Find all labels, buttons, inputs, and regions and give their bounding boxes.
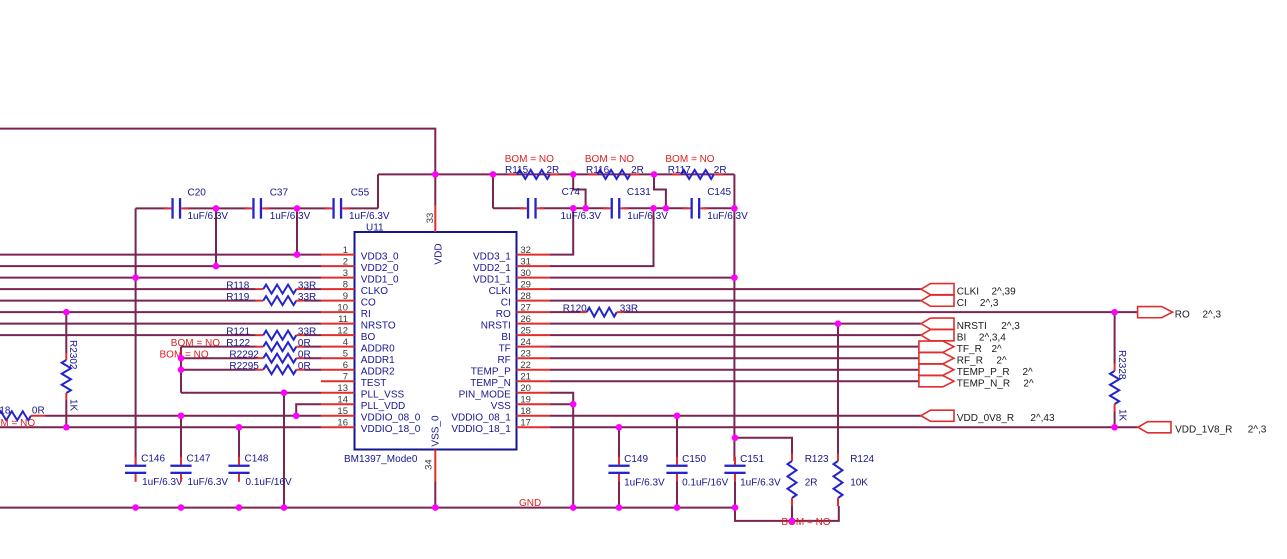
value BM1397_Mode0 [344, 454, 418, 465]
svg-text:TEMP_P_R: TEMP_P_R [957, 367, 1010, 378]
svg-text:12: 12 [337, 325, 348, 336]
wire C147 tap [180, 416, 182, 466]
wire RI row [0, 311, 321, 313]
wire VDD2_0 row [0, 265, 321, 267]
wire CLKO row b [304, 288, 321, 290]
svg-text:C20: C20 [188, 187, 207, 198]
junction [281, 504, 288, 511]
wire ADDR2 row a [181, 369, 256, 371]
junction [213, 263, 220, 270]
svg-text:0R: 0R [298, 349, 311, 360]
wire cap rail seg2 [184, 207, 249, 209]
svg-text:PIN_MODE: PIN_MODE [459, 390, 512, 401]
svg-text:11: 11 [338, 314, 348, 325]
wire PLL_VSS to GND vertical [283, 393, 285, 508]
resistor R2295 [229, 361, 310, 374]
svg-text:ADDR0: ADDR0 [361, 343, 395, 354]
svg-text:2R: 2R [547, 165, 560, 176]
resistor R120 [563, 303, 638, 316]
svg-text:RO: RO [496, 309, 511, 320]
capacitor C55 [325, 187, 390, 222]
port NRSTI [921, 318, 1020, 332]
junction [63, 424, 70, 431]
svg-text:1uF/6.3V: 1uF/6.3V [627, 211, 668, 222]
wire cap rail seg4 [345, 207, 378, 209]
svg-text:NRSTI: NRSTI [481, 320, 511, 331]
wire R2302 top seg [65, 312, 67, 353]
wire bypass rail seg1 [493, 207, 524, 209]
capacitor C151 [724, 454, 781, 489]
junction [294, 251, 301, 258]
svg-text:TEMP_N_R: TEMP_N_R [957, 378, 1010, 389]
wire R124 feed [837, 324, 839, 454]
wire ADDR bus vertical [180, 347, 182, 393]
svg-text:R123: R123 [805, 454, 829, 465]
svg-text:VSS_0: VSS_0 [431, 415, 442, 447]
svg-text:18: 18 [520, 406, 531, 417]
svg-text:TF: TF [499, 343, 511, 354]
svg-text:BM1397_Mode0: BM1397_Mode0 [344, 454, 418, 465]
junction [236, 424, 243, 431]
svg-text:0.1uF/16V: 0.1uF/16V [246, 477, 292, 488]
wire pin33 feed [434, 174, 436, 205]
wire ADDR2 row b [304, 369, 321, 371]
svg-text:RF: RF [497, 355, 510, 366]
svg-text:NRSTO: NRSTO [361, 320, 396, 331]
wire CLKO row a [0, 288, 256, 290]
junction [570, 504, 577, 511]
svg-text:28: 28 [520, 291, 531, 302]
pin 3 VDD1_0 [321, 268, 399, 286]
port CI [921, 295, 999, 309]
wire ADDR1 row a [181, 357, 256, 359]
junction [178, 412, 185, 419]
svg-text:31: 31 [520, 256, 531, 267]
junction [616, 424, 623, 431]
wire VDD2_1 pin31 link [550, 208, 654, 266]
capacitor C37 [245, 187, 311, 222]
svg-text:R2295: R2295 [229, 361, 259, 372]
svg-text:VDDIO_08_0: VDDIO_08_0 [361, 413, 421, 424]
svg-text:CLKI: CLKI [957, 286, 979, 297]
pin 13 PLL_VSS [321, 383, 404, 401]
port VDD_0V8_R [921, 410, 1055, 424]
wire VDD to C55 [377, 174, 379, 208]
junction [731, 274, 738, 281]
svg-text:21: 21 [520, 371, 531, 382]
pin 12 BO [321, 325, 375, 343]
svg-text:CO: CO [361, 297, 376, 308]
svg-text:1K: 1K [68, 399, 79, 412]
svg-text:17: 17 [520, 417, 531, 428]
resistor R123 [788, 454, 830, 507]
pin 4 ADDR0 [321, 337, 395, 355]
junction [213, 205, 220, 212]
junction [674, 504, 681, 511]
resistor R2292 [160, 349, 311, 362]
svg-text:15: 15 [337, 406, 348, 417]
svg-text:CI: CI [957, 298, 967, 309]
wire bypass rail seg3 [624, 207, 688, 209]
pin 26 NRSTI [481, 314, 550, 332]
wire BO row b [304, 334, 321, 336]
capacitor C131 [603, 187, 668, 222]
wire VDD top rail [0, 129, 435, 175]
wire R117 to VDD1 vertical [733, 174, 735, 461]
svg-text:VDD: VDD [434, 243, 445, 264]
svg-text:PLL_VSS: PLL_VSS [361, 390, 405, 401]
wire C20 junction drop [215, 208, 217, 266]
svg-text:R118: R118 [226, 280, 250, 291]
pin 5 ADDR1 [321, 348, 395, 366]
pin 18 VDDIO_08_1 [451, 406, 550, 424]
pin 10 RI [321, 302, 371, 320]
junction [432, 171, 439, 178]
wire cap rail seg1 [136, 207, 169, 209]
svg-text:1uF/6.3V: 1uF/6.3V [188, 211, 229, 222]
wire C148 tap [238, 427, 240, 465]
resistor R2302 [62, 340, 79, 412]
wire VDD1_1 pin30 link [550, 277, 734, 279]
svg-text:13: 13 [337, 383, 348, 394]
svg-text:BOM = NO: BOM = NO [505, 154, 554, 165]
svg-text:C131: C131 [627, 187, 651, 198]
junction [732, 435, 739, 442]
junction [281, 389, 288, 396]
svg-text:VDDIO_18_1: VDDIO_18_1 [451, 424, 511, 435]
net label GND [519, 498, 541, 509]
svg-text:VDD3_0: VDD3_0 [361, 251, 399, 262]
svg-text:2R: 2R [631, 165, 644, 176]
pin 19 VSS [491, 394, 550, 412]
svg-text:C151: C151 [740, 454, 764, 465]
pin 29 CLKI [489, 279, 550, 297]
svg-text:CI: CI [501, 297, 511, 308]
svg-text:VDD2_1: VDD2_1 [473, 263, 511, 274]
wire R123 bottom lead [791, 506, 793, 521]
pin 28 CI [501, 291, 550, 309]
svg-text:VDD_0V8_R: VDD_0V8_R [957, 413, 1014, 424]
capacitor C74 [519, 187, 601, 222]
resistor R118 [226, 280, 316, 293]
svg-text:2^: 2^ [1023, 378, 1034, 389]
svg-text:22: 22 [520, 360, 531, 371]
svg-text:R2292: R2292 [229, 349, 259, 360]
capacitor C149 [608, 454, 665, 489]
junction [663, 205, 670, 212]
junction [293, 412, 300, 419]
svg-text:14: 14 [337, 394, 348, 405]
svg-text:2^: 2^ [992, 344, 1003, 355]
junction [674, 412, 681, 419]
svg-text:0R: 0R [298, 361, 311, 372]
svg-text:C74: C74 [562, 187, 581, 198]
wire R2328 bottom seg [1114, 412, 1116, 428]
wire PIN_MODE link [550, 393, 573, 405]
svg-text:R119: R119 [226, 292, 250, 303]
svg-text:R124: R124 [850, 454, 874, 465]
svg-text:R2302: R2302 [67, 340, 78, 370]
svg-text:1uF/6.3V: 1uF/6.3V [707, 211, 748, 222]
svg-text:NRSTI: NRSTI [957, 321, 987, 332]
junction [63, 309, 70, 316]
wire CO row b [304, 300, 321, 302]
svg-text:BOM = NO: BOM = NO [665, 154, 714, 165]
wire C149 gnd lead [618, 481, 620, 508]
svg-text:2^,3: 2^,3 [1248, 424, 1267, 435]
junction [732, 504, 739, 511]
svg-text:R2328: R2328 [1116, 350, 1127, 380]
wire GND rail [0, 507, 735, 509]
resistor R116 [585, 154, 644, 179]
pin 11 NRSTO [321, 314, 396, 332]
port RO [1138, 307, 1222, 321]
junction [132, 504, 139, 511]
junction [490, 171, 497, 178]
junction [616, 504, 623, 511]
pin 33 VDD [425, 205, 445, 265]
svg-text:R2318: R2318 [0, 405, 11, 416]
svg-text:TEMP_P: TEMP_P [471, 367, 511, 378]
port TF_R [919, 341, 1002, 355]
svg-text:16: 16 [337, 417, 348, 428]
chip U11 body [355, 232, 517, 450]
svg-text:VDDIO_08_1: VDDIO_08_1 [451, 413, 511, 424]
wire R123 feed [735, 438, 792, 454]
wire VDD horizontal [378, 173, 734, 175]
wire pin34 to GND [434, 482, 436, 508]
svg-text:2^,43: 2^,43 [1030, 413, 1055, 424]
wire RO net a [550, 311, 580, 313]
wire VDD1_0 row [0, 277, 321, 279]
wire TEMP_N net [550, 380, 919, 382]
resistor R117 [665, 154, 726, 179]
svg-text:1uF/6.3V: 1uF/6.3V [142, 477, 183, 488]
svg-text:C148: C148 [245, 453, 269, 464]
wire VDD3_0 row [0, 254, 321, 256]
junction [1111, 309, 1118, 316]
pin 20 PIN_MODE [459, 383, 550, 401]
svg-text:GND: GND [519, 498, 541, 509]
svg-text:TEST: TEST [361, 378, 387, 389]
svg-text:0R: 0R [298, 338, 311, 349]
wire R2302 bottom seg [65, 400, 67, 427]
wire cap rail seg3 [265, 207, 329, 209]
svg-text:5: 5 [343, 348, 348, 359]
junction [178, 366, 185, 373]
wire RO net b [624, 311, 1138, 313]
capacitor C145 [683, 187, 748, 222]
wire TEMP_P net [550, 369, 919, 371]
svg-text:6: 6 [343, 360, 348, 371]
wire NRSTI net [550, 323, 921, 325]
svg-text:0.1uF/16V: 0.1uF/16V [682, 477, 728, 488]
svg-text:24: 24 [520, 337, 531, 348]
svg-text:BOM = NO: BOM = NO [585, 154, 634, 165]
svg-text:VSS: VSS [491, 401, 511, 412]
svg-text:1uF/6.3V: 1uF/6.3V [270, 211, 311, 222]
svg-text:20: 20 [520, 383, 531, 394]
junction [178, 355, 185, 362]
svg-text:33R: 33R [298, 292, 316, 303]
pin 34 VSS_0 [424, 415, 442, 482]
wire ADDR0 row b [304, 346, 321, 348]
svg-text:RI: RI [361, 309, 371, 320]
svg-text:2^: 2^ [1023, 367, 1034, 378]
wire bypass rail drop [492, 174, 494, 208]
pin 31 VDD2_1 [473, 256, 550, 274]
svg-text:VDD3_1: VDD3_1 [473, 251, 511, 262]
svg-text:19: 19 [520, 394, 531, 405]
svg-text:R121: R121 [226, 326, 250, 337]
svg-text:9: 9 [343, 291, 348, 302]
wire VDDIO_08 row [45, 415, 321, 417]
wire NRSTO row [0, 323, 321, 325]
svg-text:2^,3: 2^,3 [1001, 321, 1020, 332]
svg-text:33: 33 [425, 213, 436, 224]
resistor R2318 [0, 405, 45, 428]
pin 27 RO [496, 302, 550, 320]
designator U11 [366, 222, 384, 233]
wire C74 feed jog [573, 174, 585, 208]
wire C150 gnd lead [676, 481, 678, 508]
pin 25 BI [501, 325, 550, 343]
svg-text:RO: RO [1175, 309, 1190, 320]
pin 2 VDD2_0 [321, 256, 399, 274]
svg-text:33R: 33R [298, 280, 316, 291]
pin 9 CO [321, 291, 376, 309]
svg-text:0R: 0R [32, 405, 45, 416]
svg-text:8: 8 [343, 279, 348, 290]
svg-text:2^,3,4: 2^,3,4 [979, 332, 1006, 343]
svg-text:BI: BI [957, 332, 966, 343]
pin 7 TEST [321, 371, 386, 389]
svg-text:2: 2 [343, 256, 348, 267]
text BOM = NO bottom [781, 517, 830, 528]
svg-text:23: 23 [520, 348, 531, 359]
wire ADDR1 row b [304, 357, 321, 359]
svg-text:2R: 2R [714, 165, 727, 176]
svg-text:RF_R: RF_R [957, 355, 983, 366]
capacitor C150 [666, 454, 728, 489]
junction [731, 205, 738, 212]
junction [835, 320, 842, 327]
pin 23 RF [497, 348, 550, 366]
svg-text:CLKI: CLKI [489, 286, 511, 297]
pin 15 VDDIO_08_0 [321, 406, 421, 424]
wire bypass rail seg2 [540, 207, 608, 209]
wire VDDIO_18 row [0, 426, 321, 428]
wire VSS to GND [572, 404, 574, 507]
svg-text:R120: R120 [563, 303, 587, 314]
svg-text:C146: C146 [141, 453, 165, 464]
svg-text:3: 3 [343, 268, 348, 279]
pin 30 VDD1_1 [473, 268, 550, 286]
svg-text:BO: BO [361, 332, 376, 343]
svg-text:1K: 1K [1117, 409, 1128, 422]
svg-text:TF_R: TF_R [957, 344, 982, 355]
wire CI net [550, 300, 921, 302]
svg-text:ADDR2: ADDR2 [361, 367, 395, 378]
junction [432, 504, 439, 511]
wire BO row a [0, 334, 256, 336]
capacitor C20 [164, 187, 229, 222]
wire VDD3_1 pin32 link [550, 208, 573, 254]
wire C150 tap [676, 416, 678, 458]
svg-text:VDDIO_18_0: VDDIO_18_0 [361, 424, 421, 435]
pin 1 VDD3_0 [321, 245, 399, 263]
wire RF net [550, 357, 919, 359]
svg-text:29: 29 [520, 279, 531, 290]
wire C37 junction drop [296, 208, 298, 254]
wire C131 feed jog [654, 174, 666, 208]
resistor R122 [171, 338, 311, 351]
pin 22 TEMP_P [471, 360, 550, 378]
svg-text:7: 7 [343, 371, 348, 382]
resistor R121 [226, 326, 316, 339]
wire BI net [550, 334, 921, 336]
junction [570, 205, 577, 212]
resistor R124 [834, 454, 875, 507]
wire C149 tap [618, 427, 620, 457]
svg-text:25: 25 [520, 325, 531, 336]
svg-text:33R: 33R [620, 303, 638, 314]
wire bypass rail seg4 [704, 207, 735, 209]
svg-text:2^: 2^ [996, 355, 1007, 366]
junction [294, 205, 301, 212]
port TEMP_N_R [919, 376, 1034, 390]
pin 6 ADDR2 [321, 360, 395, 378]
svg-text:ADDR1: ADDR1 [361, 355, 395, 366]
svg-text:BOM = NO: BOM = NO [0, 418, 35, 429]
wire VDDIO_08 right [550, 415, 921, 417]
svg-text:U11: U11 [366, 222, 384, 233]
svg-text:1uF/6.3V: 1uF/6.3V [188, 477, 229, 488]
pin 24 TF [499, 337, 550, 355]
svg-text:C149: C149 [624, 454, 648, 465]
port BI [921, 330, 1006, 344]
junction [650, 205, 657, 212]
pin 8 CLKO [321, 279, 388, 297]
svg-text:1uF/6.3V: 1uF/6.3V [740, 477, 781, 488]
svg-text:C147: C147 [187, 453, 211, 464]
svg-text:1: 1 [343, 245, 348, 256]
svg-text:33R: 33R [298, 326, 316, 337]
svg-text:30: 30 [520, 268, 531, 279]
svg-text:BI: BI [501, 332, 510, 343]
resistor R119 [226, 292, 316, 305]
svg-text:BOM = NO: BOM = NO [781, 517, 830, 528]
junction [570, 171, 577, 178]
pin 14 PLL_VDD [321, 394, 405, 412]
resistor R2328 [1110, 350, 1128, 422]
svg-text:R122: R122 [226, 338, 250, 349]
junction [132, 274, 139, 281]
junction [236, 504, 243, 511]
svg-text:CLKO: CLKO [361, 286, 388, 297]
svg-text:32: 32 [520, 245, 531, 256]
pin 21 TEMP_N [470, 371, 550, 389]
junction [570, 401, 577, 408]
svg-text:1uF/6.3V: 1uF/6.3V [561, 211, 602, 222]
svg-text:26: 26 [520, 314, 531, 325]
svg-text:10K: 10K [850, 477, 868, 488]
pin 32 VDD3_1 [473, 245, 550, 263]
svg-text:2^,39: 2^,39 [992, 286, 1017, 297]
wire VSS pin19 [550, 403, 573, 405]
wire PLL_VSS row [181, 392, 321, 394]
wire TF net [550, 346, 919, 348]
